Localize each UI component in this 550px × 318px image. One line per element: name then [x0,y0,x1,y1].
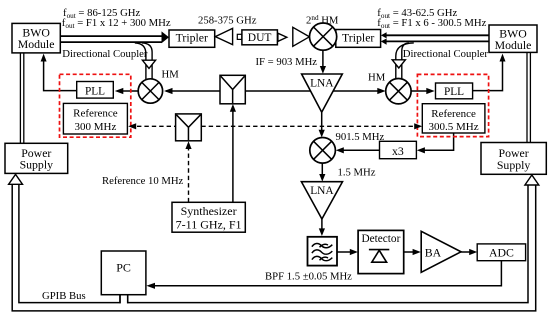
svg-text:BA: BA [425,245,442,259]
svg-text:IF = 903 MHz: IF = 903 MHz [256,56,318,68]
svg-text:Tripler: Tripler [342,31,374,45]
svg-text:Module: Module [495,38,532,52]
svg-text:Synthesizer: Synthesizer [181,204,237,218]
svg-text:DUT: DUT [248,32,272,44]
svg-text:LNA: LNA [310,78,334,90]
svg-text:1.5 MHz: 1.5 MHz [338,166,376,178]
svg-text:LNA: LNA [310,185,334,197]
svg-text:Tripler: Tripler [176,31,208,45]
svg-text:fout = F1 x 6 - 300.5 MHz: fout = F1 x 6 - 300.5 MHz [377,17,486,30]
svg-text:Module: Module [18,37,55,51]
svg-text:Reference: Reference [73,108,118,120]
svg-text:901.5 MHz: 901.5 MHz [336,131,385,143]
svg-text:HM: HM [368,71,386,83]
svg-text:Directional Coupler: Directional Coupler [403,48,489,60]
svg-text:BPF 1.5 ±0.05 MHz: BPF 1.5 ±0.05 MHz [265,270,352,282]
svg-text:Detector: Detector [361,233,400,245]
svg-text:258-375 GHz: 258-375 GHz [198,14,257,26]
svg-text:Reference 10 MHz: Reference 10 MHz [102,175,184,187]
svg-text:Supply: Supply [497,158,531,172]
svg-text:HM: HM [162,69,180,81]
svg-text:300 MHz: 300 MHz [74,121,116,133]
svg-text:ADC: ADC [489,246,514,260]
svg-text:7-11 GHz, F1: 7-11 GHz, F1 [176,217,242,231]
svg-text:300.5 MHz: 300.5 MHz [429,121,479,133]
svg-text:2nd HM: 2nd HM [306,14,339,27]
svg-text:PC: PC [116,261,131,275]
svg-text:fout = F1 x 12 + 300 MHz: fout = F1 x 12 + 300 MHz [62,17,171,30]
svg-text:Reference: Reference [431,108,476,120]
svg-text:GPIB Bus: GPIB Bus [42,290,86,302]
svg-text:PLL: PLL [444,86,464,98]
svg-text:PLL: PLL [85,85,105,97]
svg-text:Supply: Supply [20,158,54,172]
svg-text:Directional Coupler: Directional Coupler [62,48,148,60]
svg-text:x3: x3 [392,144,404,158]
